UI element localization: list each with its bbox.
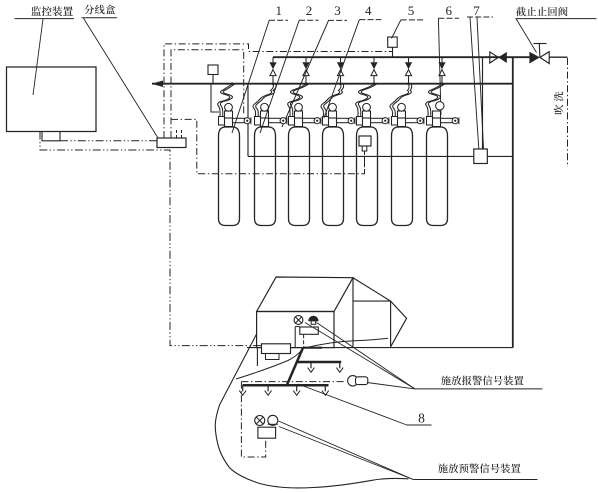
floor box stand — [266, 354, 280, 360]
monitoring device box — [7, 67, 97, 132]
wire stem below solenoid — [364, 151, 366, 174]
svg-text:2: 2 — [306, 3, 313, 18]
upper collecting manifold — [273, 56, 529, 58]
underline 4 — [359, 19, 381, 21]
check valve 3 — [337, 57, 344, 85]
nozzles on lower header — [242, 385, 244, 391]
wire from alarm bracket down — [303, 334, 305, 347]
wire stubs into junction box top — [176, 128, 178, 138]
svg-text:5: 5 — [408, 3, 415, 18]
wire W3 to solenoid release on cylinder 5 — [171, 119, 365, 173]
underline of stop-check-valve label — [516, 18, 597, 20]
leader 3 — [282, 21, 329, 128]
bracket arm and post — [295, 326, 300, 328]
pressure operated device 7 — [474, 149, 488, 164]
cylinder valve 4 — [323, 103, 355, 126]
underline 5 — [401, 19, 424, 21]
underline of monitoring label — [15, 18, 75, 20]
flexible hose 6 — [390, 84, 409, 116]
stop check valve V2 with stem — [529, 44, 549, 64]
extension front face — [353, 301, 391, 347]
cylinder valve 7 — [427, 102, 459, 127]
room top face — [257, 277, 353, 312]
underline 7 — [467, 16, 493, 18]
release alarm light (circle-X) — [294, 316, 303, 325]
thick lower header — [243, 384, 329, 387]
leader to valve V2 — [516, 19, 537, 53]
pressure switch 5 on manifold — [388, 37, 398, 47]
CO2 cylinder 6 — [392, 127, 413, 226]
CO2 cylinder 3 — [289, 127, 310, 226]
alarm mounting bracket — [300, 327, 319, 334]
leader 4 — [324, 20, 359, 118]
rack frame lower bar — [248, 155, 513, 157]
check valve 5 — [405, 57, 412, 85]
cylinder valve 5 — [357, 103, 389, 126]
junction box — [157, 138, 186, 148]
label shifang yujing xinhao zhuangzhi (release pre-warning signal device) — [438, 463, 521, 473]
CO2 cylinder 4 — [323, 127, 344, 226]
underline 6 — [438, 17, 459, 19]
lower header line with flow arrow — [152, 83, 513, 85]
solenoid release on cylinder 5 — [359, 136, 371, 146]
nozzles on upper branch — [310, 362, 312, 368]
freeform platform boundary — [215, 334, 408, 488]
room back-right vertical — [352, 278, 354, 347]
CO2 cylinder 7 — [427, 127, 448, 226]
cylinder valve 6 — [392, 103, 424, 126]
pre-warning light (circle-X) — [255, 416, 265, 426]
svg-text:8: 8 — [418, 411, 425, 426]
thin curve C2 (platform edge right) — [303, 338, 388, 348]
CO2 cylinder 5 — [357, 127, 378, 226]
leader 8 to pipe — [298, 384, 407, 425]
flow arrow head — [152, 81, 164, 88]
thick branch upper — [297, 361, 341, 364]
purge line (chui xi) dash-dot down — [567, 58, 569, 167]
thin curve C1 (platform edge) — [236, 349, 303, 380]
thick pipe along deck at entry — [303, 347, 322, 349]
check valve 2 — [302, 57, 309, 85]
leaders to pre-warning devices — [279, 421, 414, 480]
alarm horn 2 (on wire) — [348, 376, 358, 386]
leader 6 — [438, 18, 441, 115]
CO2 cylinder 2 — [255, 127, 276, 226]
pre-warning bell — [268, 415, 278, 425]
room wire to pre-warning device — [241, 382, 265, 457]
label jiankongzhuangzhi (monitoring device) — [31, 6, 73, 16]
underline release-alarm label — [415, 388, 543, 390]
label jiezhizhihuifa (stop check valve) — [516, 7, 568, 17]
room wire dash-dot horizontal — [241, 381, 345, 383]
underline 1 — [269, 19, 288, 21]
flexible hose 7 — [426, 84, 442, 116]
svg-text:4: 4 — [365, 3, 372, 18]
cylinder valve 3 — [289, 103, 321, 126]
junction dots on header — [231, 82, 234, 85]
underline 3 — [328, 19, 347, 21]
cylinder valve 2 — [255, 103, 287, 126]
leader 7 (two lines) — [470, 17, 479, 148]
pipe from manifold down to pressure device 7 — [482, 57, 484, 149]
leader from junction-box label — [84, 18, 159, 138]
leader 2 — [260, 20, 299, 133]
flexible hose 5 — [356, 84, 374, 116]
flexible hose 3 — [288, 84, 306, 116]
leaders to alarm devices — [305, 323, 415, 389]
svg-text:6: 6 — [445, 3, 452, 18]
floor cable box in room — [262, 344, 291, 354]
pipe after valve 2 to purge elbow — [549, 56, 568, 58]
pilot line from header to cylinder 1 valve — [211, 84, 219, 112]
label shifang baojing xinhao zhuangzhi (release alarm signal device) — [441, 376, 524, 386]
leader 5 — [392, 20, 401, 39]
label fenxianhe (junction box) — [84, 5, 115, 15]
check valve 1 — [269, 57, 276, 85]
flexible hose 2 — [253, 84, 273, 116]
svg-text:1: 1 — [275, 3, 282, 18]
check valve 6 — [438, 57, 445, 85]
monitor pedestal — [42, 132, 60, 141]
wire W2 junction box to pilot cylinder 1 — [171, 50, 244, 138]
wire monitor down-right to room (vertical run) — [40, 132, 262, 346]
pre-warning box — [258, 427, 276, 438]
svg-text:7: 7 — [473, 3, 480, 18]
check valve 4 — [370, 57, 377, 85]
label chuixi (purge) vertical — [554, 92, 564, 115]
rack frame left vertical — [247, 84, 249, 157]
wire W1 junction box to pressure switch 5 — [164, 44, 393, 138]
flexible hose 4 — [321, 84, 341, 116]
room front face — [257, 312, 334, 348]
cylinder valve 1 — [219, 103, 251, 126]
roof edge to extension — [353, 278, 391, 301]
underline 8 — [407, 424, 432, 426]
leader from monitoring label to box — [33, 19, 43, 95]
deck line — [247, 347, 513, 349]
room front-left edge below deck — [256, 348, 258, 366]
underline pre-warning label — [413, 479, 537, 481]
main discharge downpipe — [512, 57, 514, 347]
underline of junction-box label — [82, 17, 118, 19]
pressure switch (left, on header) — [208, 65, 218, 75]
thick distribution pipe (riser diagonal) — [287, 348, 303, 385]
underline 2 — [299, 19, 319, 21]
wire monitor to junction box — [60, 140, 157, 142]
stop valve V1 (outline/filled bowtie) — [490, 52, 507, 63]
extension hip lines — [391, 301, 407, 347]
release alarm horn — [309, 316, 318, 321]
svg-text:3: 3 — [334, 3, 341, 18]
leader 1 — [232, 20, 269, 133]
CO2 cylinder 1 — [219, 127, 240, 226]
flexible hose 1 — [218, 84, 232, 116]
